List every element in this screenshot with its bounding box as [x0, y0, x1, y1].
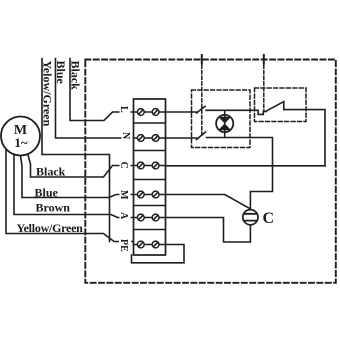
- svg-text:N: N: [120, 132, 131, 140]
- svg-text:C: C: [263, 210, 275, 227]
- svg-text:M: M: [118, 190, 129, 200]
- svg-text:Yellow/Green: Yellow/Green: [17, 221, 84, 235]
- svg-text:Black: Black: [69, 61, 83, 91]
- svg-text:Blue: Blue: [54, 61, 68, 85]
- svg-text:Brown: Brown: [36, 201, 71, 215]
- svg-text:C: C: [118, 162, 129, 169]
- svg-text:Yelow/Green: Yelow/Green: [41, 61, 55, 127]
- svg-text:L: L: [118, 106, 129, 113]
- svg-text:A: A: [118, 212, 129, 220]
- svg-text:PE: PE: [118, 239, 129, 252]
- svg-text:Black: Black: [36, 165, 66, 179]
- svg-text:Blue: Blue: [35, 186, 59, 200]
- svg-text:1~: 1~: [14, 135, 28, 150]
